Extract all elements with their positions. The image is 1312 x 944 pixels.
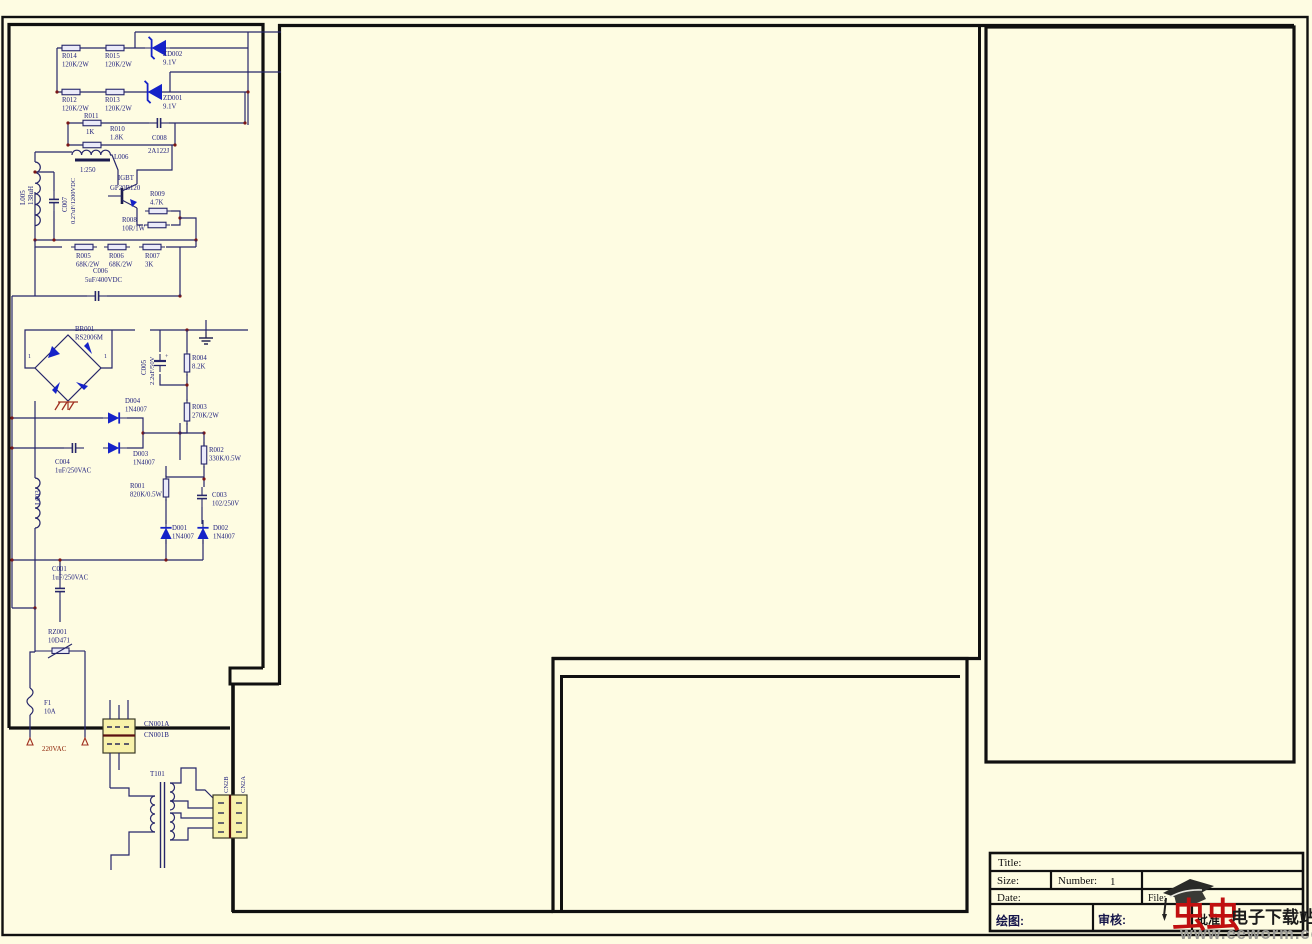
- svg-text:C003: C003: [212, 492, 227, 499]
- svg-text:C008: C008: [152, 135, 167, 142]
- wire: [30, 652, 35, 688]
- diode D003: [103, 442, 127, 453]
- wire: [12, 607, 35, 609]
- wire: [12, 447, 64, 449]
- border right section box: [986, 27, 1294, 762]
- svg-text:R001: R001: [130, 483, 145, 490]
- wire left mains: [11, 296, 13, 608]
- svg-text:9.1V: 9.1V: [163, 104, 176, 111]
- resistor R009: [145, 208, 171, 214]
- svg-text:R012: R012: [62, 97, 77, 104]
- wire: [135, 31, 281, 33]
- junction: [194, 238, 197, 241]
- wire: [160, 374, 187, 385]
- capacitor C004: [64, 443, 84, 453]
- svg-text:1N4007: 1N4007: [125, 407, 148, 414]
- diode D002: [197, 520, 208, 544]
- wire: [127, 700, 129, 719]
- wire: [203, 433, 205, 446]
- wire: [109, 753, 111, 788]
- varistor RZ001: [35, 644, 85, 658]
- wire: [179, 423, 181, 460]
- wire: [67, 401, 69, 410]
- svg-text:1.8K: 1.8K: [110, 135, 123, 142]
- wire: [68, 144, 175, 146]
- inductor L003: [35, 478, 40, 528]
- svg-text:68K/2W: 68K/2W: [109, 262, 133, 269]
- junction: [185, 383, 188, 386]
- wire: [118, 753, 120, 770]
- transformer T101 core: [160, 782, 162, 868]
- svg-text:C001: C001: [52, 566, 67, 573]
- junction: [58, 558, 61, 561]
- junction: [185, 328, 188, 331]
- svg-text:D004: D004: [125, 398, 141, 405]
- svg-text:F1: F1: [44, 700, 51, 707]
- inductor core L006: [75, 159, 110, 162]
- wire: [34, 152, 36, 162]
- svg-text:1N4007: 1N4007: [213, 534, 236, 541]
- ground dark: [199, 332, 213, 344]
- wire: [35, 240, 62, 247]
- resistor R015: [102, 45, 128, 51]
- junction: [141, 431, 144, 434]
- svg-text:ZD001: ZD001: [163, 95, 182, 102]
- wire: [560, 675, 960, 678]
- wire: [67, 123, 69, 145]
- wire: [166, 476, 204, 478]
- chassis ground: [55, 402, 78, 410]
- svg-text:1: 1: [1110, 876, 1116, 888]
- wire: [34, 247, 36, 296]
- wire: [35, 151, 72, 153]
- terminal: [27, 738, 33, 745]
- wire: [12, 295, 87, 297]
- svg-text:1N4007: 1N4007: [172, 534, 195, 541]
- wire: [244, 92, 246, 123]
- svg-text:审核:: 审核:: [1098, 912, 1126, 927]
- wire: [180, 432, 204, 434]
- junction: [173, 143, 176, 146]
- svg-text:CN001A: CN001A: [144, 720, 169, 728]
- svg-text:C006: C006: [93, 268, 108, 275]
- svg-text:2A122J: 2A122J: [148, 148, 170, 155]
- wire: [179, 247, 181, 296]
- wire: [186, 330, 188, 352]
- svg-text:0.27uF/1200VDC: 0.27uF/1200VDC: [70, 178, 77, 224]
- svg-text:1: 1: [28, 354, 31, 360]
- resistor R005: [71, 244, 97, 250]
- wire: [203, 466, 205, 487]
- svg-text:R009: R009: [150, 191, 165, 198]
- connector CN2B CN2A: [213, 795, 247, 838]
- wire: [165, 540, 167, 560]
- wire: [232, 910, 553, 913]
- wire: [110, 155, 118, 185]
- junction: [52, 238, 55, 241]
- zener ZD002: [143, 37, 171, 59]
- wire: [137, 145, 172, 184]
- resistor R010: [79, 142, 105, 148]
- wire: [170, 828, 213, 840]
- svg-text:330K/0.5W: 330K/0.5W: [209, 456, 241, 463]
- svg-text:1:250: 1:250: [80, 167, 96, 174]
- resistor R011: [79, 120, 105, 126]
- wire: [143, 432, 180, 434]
- svg-text:102/250V: 102/250V: [212, 501, 239, 508]
- svg-text:2.2uF/50V: 2.2uF/50V: [149, 356, 156, 385]
- svg-text:GP20B120: GP20B120: [110, 185, 141, 192]
- wire: [12, 417, 103, 419]
- wire: [169, 72, 171, 92]
- wire: [202, 540, 204, 560]
- junction: [178, 431, 181, 434]
- svg-text:D001: D001: [172, 525, 187, 532]
- junction: [33, 238, 36, 241]
- svg-text:File:: File:: [1148, 893, 1166, 904]
- wire: [170, 813, 213, 818]
- wire: [195, 240, 197, 247]
- junction: [178, 216, 181, 219]
- svg-text:8.2K: 8.2K: [192, 364, 205, 371]
- wire: [68, 122, 149, 124]
- svg-text:RS2006M: RS2006M: [75, 335, 103, 342]
- svg-text:1uF/250VAC: 1uF/250VAC: [52, 575, 89, 582]
- wire: [170, 801, 213, 808]
- svg-text:10A: 10A: [44, 709, 56, 716]
- svg-text:C005: C005: [140, 359, 148, 375]
- svg-text:120K/2W: 120K/2W: [62, 106, 89, 113]
- svg-text:1: 1: [104, 354, 107, 360]
- resistor R004: [184, 350, 190, 376]
- resistor R013: [102, 89, 128, 95]
- svg-text:1K: 1K: [86, 129, 94, 136]
- svg-text:138uH: 138uH: [27, 186, 35, 205]
- svg-text:R004: R004: [192, 355, 207, 362]
- svg-text:L005: L005: [19, 190, 27, 205]
- wire: [34, 608, 36, 652]
- junction: [178, 294, 181, 297]
- junction: [164, 558, 167, 561]
- svg-text:R015: R015: [105, 53, 120, 60]
- junction: [55, 90, 58, 93]
- wire: [180, 423, 187, 433]
- wire: [170, 71, 281, 73]
- resistor R002: [201, 442, 207, 468]
- svg-text:ZD002: ZD002: [163, 51, 183, 58]
- wire: [137, 208, 143, 225]
- transistor IGBT Q001: [108, 184, 137, 208]
- svg-text:R010: R010: [110, 126, 125, 133]
- wire: [53, 211, 55, 240]
- diode D004: [103, 412, 127, 423]
- junction: [243, 121, 246, 124]
- svg-text:R006: R006: [109, 253, 124, 260]
- svg-text:R013: R013: [105, 97, 120, 104]
- junction: [10, 558, 13, 561]
- svg-text:R008: R008: [122, 217, 137, 224]
- wire: [134, 32, 136, 48]
- svg-text:4.7K: 4.7K: [150, 200, 163, 207]
- wire: [84, 651, 86, 738]
- resistor R012: [58, 89, 84, 95]
- junction: [10, 416, 13, 419]
- wire: [278, 24, 281, 685]
- resistor R014: [58, 45, 84, 51]
- diode D001: [160, 520, 171, 544]
- wire: [201, 507, 203, 524]
- svg-text:CN2B: CN2B: [223, 776, 230, 793]
- connector CN001A CN001B: [103, 719, 135, 753]
- wire: [186, 374, 188, 401]
- wire bridge left: [25, 330, 135, 368]
- wire: [111, 832, 155, 870]
- wire: [174, 123, 176, 145]
- wire: [107, 295, 180, 297]
- capacitor C008: [149, 118, 169, 128]
- transformer T101 secondary: [170, 783, 175, 810]
- wire L005 bottom: [34, 192, 36, 240]
- resistor R003: [184, 399, 190, 425]
- fuse F1: [27, 688, 33, 715]
- bridge rectifier BR001: [35, 335, 101, 401]
- zener ZD001: [139, 81, 167, 103]
- wire: [165, 466, 167, 477]
- svg-text:L006: L006: [114, 154, 129, 161]
- svg-text:R005: R005: [76, 253, 91, 260]
- wire: [57, 47, 145, 49]
- wire: [59, 600, 61, 622]
- wire: [34, 528, 36, 608]
- wire: [53, 172, 55, 191]
- svg-text:10R/1W: 10R/1W: [122, 226, 146, 233]
- svg-text:www.eeworm.com: www.eeworm.com: [1179, 925, 1312, 939]
- junction: [33, 606, 36, 609]
- wire: [552, 657, 981, 660]
- capacitor C005: [154, 354, 169, 372]
- wire: [978, 25, 981, 659]
- svg-text:D003: D003: [133, 451, 149, 458]
- resistor R006: [104, 244, 130, 250]
- svg-text:CN2A: CN2A: [240, 776, 247, 793]
- svg-text:Title:: Title:: [998, 857, 1021, 869]
- wire: [59, 560, 61, 580]
- watermark cap logo: [1162, 879, 1214, 921]
- inductor L006: [72, 150, 110, 155]
- svg-text:RZ001: RZ001: [48, 629, 67, 636]
- resistor R008: [144, 222, 170, 228]
- wire: [278, 24, 1294, 27]
- wire: [118, 705, 120, 719]
- junction: [246, 90, 249, 93]
- wire: [170, 47, 248, 49]
- svg-text:C007: C007: [61, 196, 69, 212]
- svg-text:220VAC: 220VAC: [42, 745, 67, 753]
- junction: [66, 121, 69, 124]
- junction: [202, 477, 205, 480]
- wire top rail: [150, 329, 248, 331]
- junction: [202, 431, 205, 434]
- wire: [35, 171, 54, 173]
- wire: [110, 788, 155, 796]
- svg-text:R014: R014: [62, 53, 77, 60]
- svg-text:Size:: Size:: [997, 875, 1019, 887]
- wire: [109, 700, 111, 719]
- wire: [127, 418, 143, 448]
- svg-text:820K/0.5W: 820K/0.5W: [130, 492, 162, 499]
- svg-text:5uF/400VDC: 5uF/400VDC: [85, 277, 122, 284]
- svg-text:270K/2W: 270K/2W: [192, 413, 219, 420]
- capacitor C006: [87, 291, 107, 301]
- svg-text:IGBT: IGBT: [118, 175, 135, 182]
- wire y240: [35, 239, 196, 241]
- junction: [10, 446, 13, 449]
- svg-text:10D471: 10D471: [48, 638, 70, 645]
- wire: [180, 218, 196, 240]
- wire: [231, 684, 235, 912]
- svg-text:CN001B: CN001B: [144, 731, 169, 739]
- wire bridge right: [101, 330, 112, 368]
- svg-text:Date:: Date:: [997, 892, 1021, 904]
- wire: [29, 715, 31, 738]
- svg-text:R002: R002: [209, 447, 224, 454]
- svg-text:Number:: Number:: [1058, 875, 1097, 887]
- svg-text:电子下载站: 电子下载站: [1231, 907, 1312, 927]
- capacitor C003: [197, 487, 207, 507]
- capacitor C001: [55, 580, 65, 600]
- svg-text:C004: C004: [55, 459, 70, 466]
- svg-text:R011: R011: [84, 113, 98, 120]
- capacitor C007: [49, 191, 59, 211]
- svg-text:3K: 3K: [145, 262, 153, 269]
- svg-text:120K/2W: 120K/2W: [105, 62, 132, 69]
- wire: [170, 768, 196, 783]
- svg-text:L003: L003: [34, 490, 42, 505]
- wire: [560, 676, 563, 911]
- resistor R007: [139, 244, 165, 250]
- svg-text:D002: D002: [213, 525, 229, 532]
- svg-text:T101: T101: [150, 770, 165, 778]
- resistor R001: [163, 475, 169, 501]
- svg-text:120K/2W: 120K/2W: [62, 62, 89, 69]
- wire: [56, 48, 58, 92]
- wire: [169, 122, 245, 124]
- wire: [166, 246, 196, 248]
- svg-text:R007: R007: [145, 253, 160, 260]
- wire: [247, 32, 249, 125]
- svg-text:9.1V: 9.1V: [163, 60, 176, 67]
- svg-text:1N4007: 1N4007: [133, 460, 156, 467]
- border step: [230, 668, 279, 684]
- junction: [66, 143, 69, 146]
- title block: [990, 853, 1303, 931]
- wire: [205, 320, 207, 332]
- wire: [12, 559, 203, 561]
- wire: [34, 401, 36, 478]
- wire: [165, 499, 167, 524]
- inductor L005: [35, 162, 40, 226]
- transformer T101 primary: [151, 796, 155, 832]
- svg-text:120K/2W: 120K/2W: [105, 106, 132, 113]
- terminal: [82, 738, 88, 745]
- svg-text:1uF/250VAC: 1uF/250VAC: [55, 468, 92, 475]
- wire: [196, 778, 213, 798]
- wire row2: [57, 91, 248, 93]
- svg-text:R003: R003: [192, 404, 207, 411]
- wire: [159, 330, 161, 352]
- border display box: [553, 659, 967, 912]
- wire: [171, 211, 180, 225]
- svg-text:绘图:: 绘图:: [996, 913, 1024, 928]
- junction: [33, 170, 36, 173]
- border left section box: [9, 25, 263, 729]
